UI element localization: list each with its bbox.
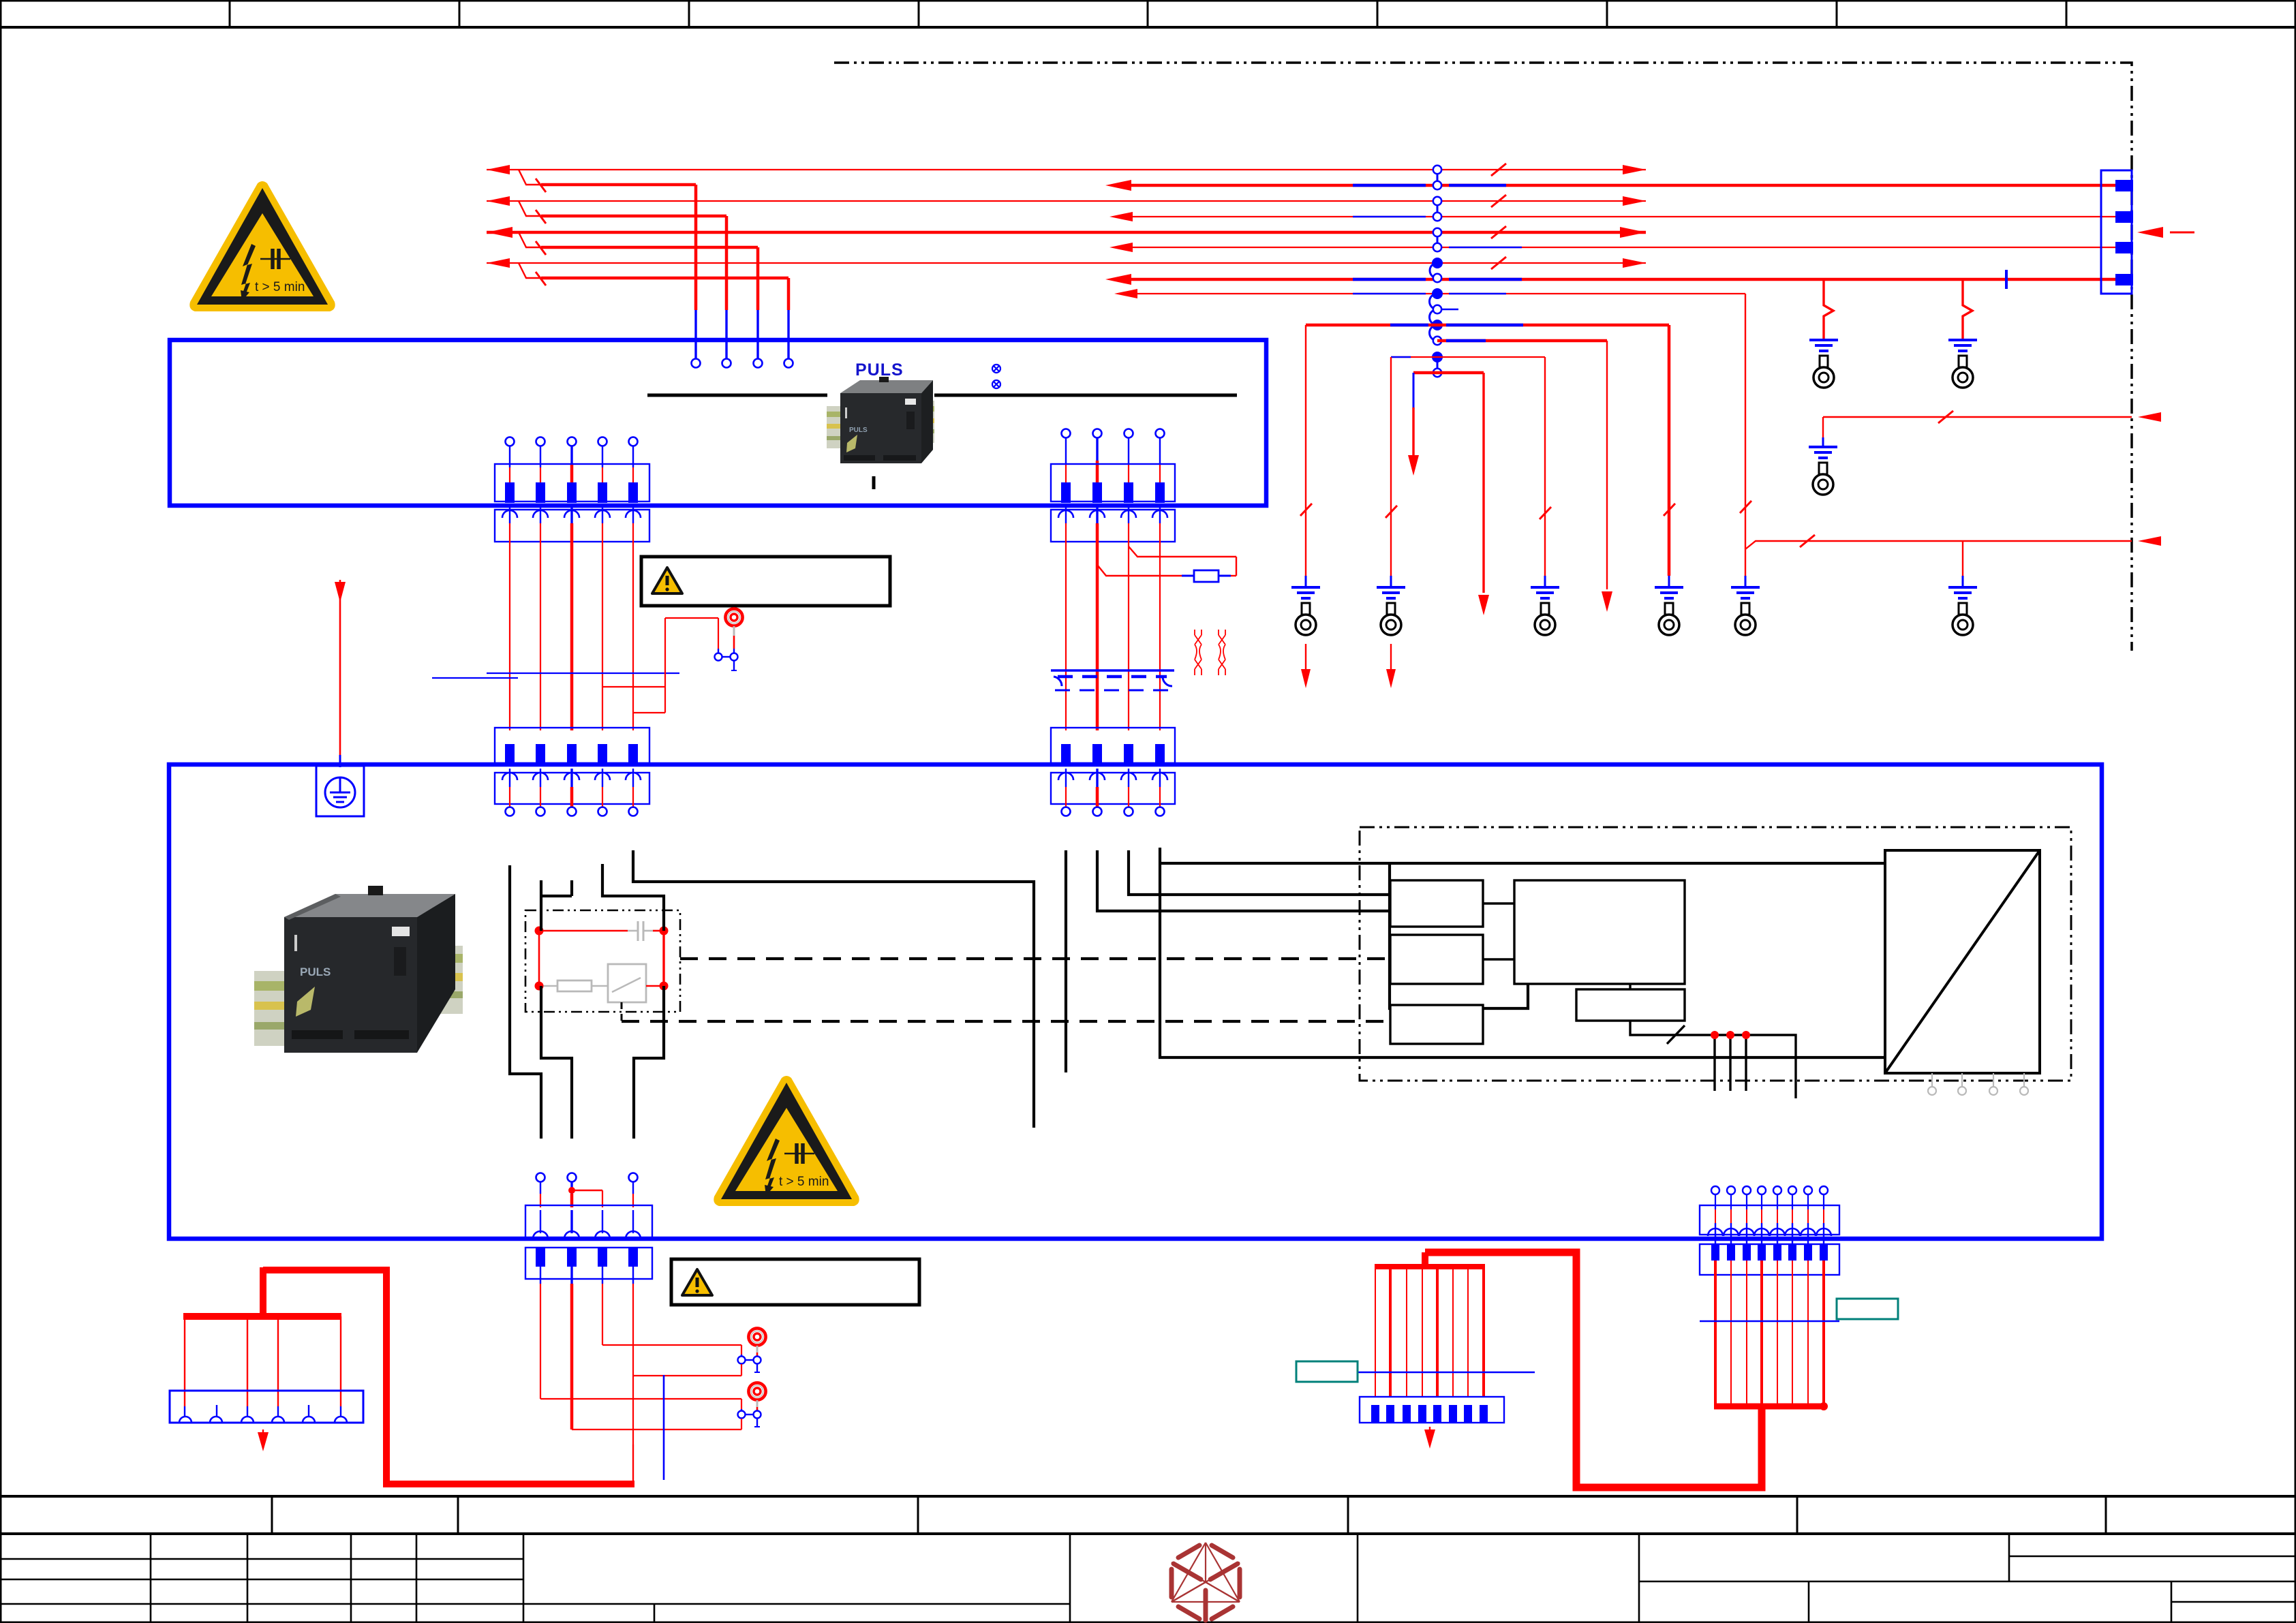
bridge wire to 884 [572,1190,602,1192]
shield dashed [1054,677,1062,686]
wires below with circles [510,769,633,807]
current tick I [872,476,876,489]
gray terminals below [1928,1073,2028,1095]
arrow below [1429,1427,1430,1435]
upper rect [525,1205,652,1239]
cabinet box 1 [170,340,1266,506]
ground lug PE6 [1948,587,1977,635]
vertical to PE lug V1916 [1305,325,1306,576]
thick feed [1422,1252,1428,1267]
link 13-14 [1437,357,1439,373]
blue potential bar [663,1375,665,1480]
company logo hexagon [1172,1543,1240,1620]
barrier line right [934,394,1237,397]
blue separator [1700,1320,1839,1323]
teal label [1296,1361,1358,1382]
wire F thick both ends down [1306,324,1669,327]
vertical V2267 [1544,357,1546,576]
ground lug PE5 [1731,587,1760,635]
wire G thick right [1437,339,1607,343]
vertical V2358 arrow [1606,341,1608,589]
PSU photo 1 [827,377,934,463]
dashed actuator stem [621,1002,623,1021]
ground lug PE9 [1809,447,1837,495]
barrier line left [647,394,827,397]
wires down through block [1715,1194,1824,1209]
vertical V2561 with branch [1745,294,1746,576]
bottom band lines [0,1495,2296,1498]
vertical V2041 [1390,357,1392,576]
breaker drop 4 [519,263,542,278]
top zone ticks [230,0,2066,27]
title block grid [0,1534,2296,1623]
middle lug with line to boundary [1823,416,2132,418]
wires below to collector [1714,1261,1717,1406]
arrow below strip [262,1429,264,1439]
arc 11-12 [1430,325,1438,341]
wire L6b thin to connector [1119,247,2117,248]
boundary arrow y341 [2137,227,2163,238]
blue potential bar [487,673,679,674]
PE terminal strip [170,1391,363,1423]
link 1-2 [1437,170,1439,185]
aux block [1576,989,1685,1021]
vertical V2449 thick [1668,325,1671,576]
link 3-4 [1437,201,1439,217]
wires below to group B' [1066,506,1160,730]
wires below [540,1267,541,1284]
svg-text:PULS: PULS [300,965,331,978]
red wire loop [602,686,665,687]
breaker drop 1 [519,170,542,185]
wire from terminal 3 [1129,546,1236,557]
wire L5 phase 3 thick [487,231,1646,234]
capacitor branch [539,930,628,932]
wires below to group A' [510,506,633,730]
circles [506,437,638,446]
node circles [1433,166,1441,174]
feed circles [536,1173,545,1182]
bottom band ticks [272,1496,2106,1534]
indicator lamp P1 [725,608,742,625]
warning triangle W1 [189,181,335,311]
wires [1375,1267,1376,1397]
switch S1 [715,653,722,661]
breaker drop 3 [519,232,542,247]
blue separator [1325,1372,1535,1374]
wire from indicator area [632,1444,634,1484]
ground lug PE8 [1948,340,1977,388]
warning triangle W2 [714,1076,859,1206]
wire L2b thick to connector [1115,184,2117,187]
input module 3 [1390,1005,1483,1044]
top zone band line [0,26,2296,29]
ground lug PE1 [1291,587,1320,635]
terminal squares [505,482,638,503]
dashed signal lines [680,957,1390,960]
ground lug PE4 [1655,587,1683,635]
junction dots [535,927,544,936]
wire 14 thick [1413,371,1484,375]
collector [1714,1404,1824,1410]
machine boundary dash-dot [834,63,2132,651]
indicator lamp P3 [748,1382,765,1400]
isolation amplifier [1885,850,2040,1073]
ground lug PE2 [1377,587,1405,635]
wire L7 phase 4 thin [487,262,1646,264]
wire to relay left cluster [510,865,541,1139]
svg-text:PULS: PULS [849,427,868,434]
svg-text:PULS: PULS [855,360,904,380]
upper lug feeds from L8b [1824,279,1833,339]
vertical V2074 short arrow [1413,373,1415,407]
cabinet box 2 [169,764,2102,1239]
link 5-6 [1437,232,1439,247]
wire L1 phase 1 thin [487,169,1646,170]
teal label [1837,1299,1898,1319]
logic block [1514,880,1685,984]
slash marks right of junction [1491,164,1506,269]
wire from terminal 2 via resistor [1097,565,1182,576]
left and right sides [538,931,540,986]
wire 13 thin [1391,356,1545,358]
B-prime cluster wires [1065,850,1067,1072]
wire L3 phase 2 thin [487,200,1646,202]
vertical V2177 arrow [1482,373,1484,593]
ground lug PE3 [1531,587,1559,635]
breaker drop 2 [519,201,542,216]
drop from top line to logic block [1390,863,1528,1008]
droppers [184,1316,185,1406]
long wire from A' terminal 5 [633,850,1034,1128]
wire drop to circle 1 [694,185,698,310]
arc 9-10-11 [1430,294,1438,325]
terminal block [1360,1397,1504,1423]
wires into block [510,446,633,485]
interconnects [1483,902,1514,904]
lamp symbol 1 [992,365,1000,373]
indicator lamp P2 [748,1328,765,1345]
ground lug PE7 [1809,340,1838,388]
wire L9 thin spare [1124,293,1745,294]
input module 1 [1390,880,1483,927]
wire L4b thin to connector [1119,216,2117,217]
wire L8b thick to connector [1115,278,2117,281]
resistor + switch branch [539,985,557,987]
shield potential line [1051,669,1174,671]
resistor R [1194,570,1219,582]
upper rect [495,464,649,501]
thick return path [1425,1252,1762,1487]
branch at 2880 to lug [1962,541,1963,576]
arc 7-8 [1430,263,1437,278]
wires through [540,1210,541,1233]
input module 2 [1390,935,1483,984]
output line with taps [1630,1021,1796,1098]
lamp symbol 2 [992,380,1000,388]
lower rect with arcs [495,510,649,542]
thick bus top [263,1270,634,1484]
